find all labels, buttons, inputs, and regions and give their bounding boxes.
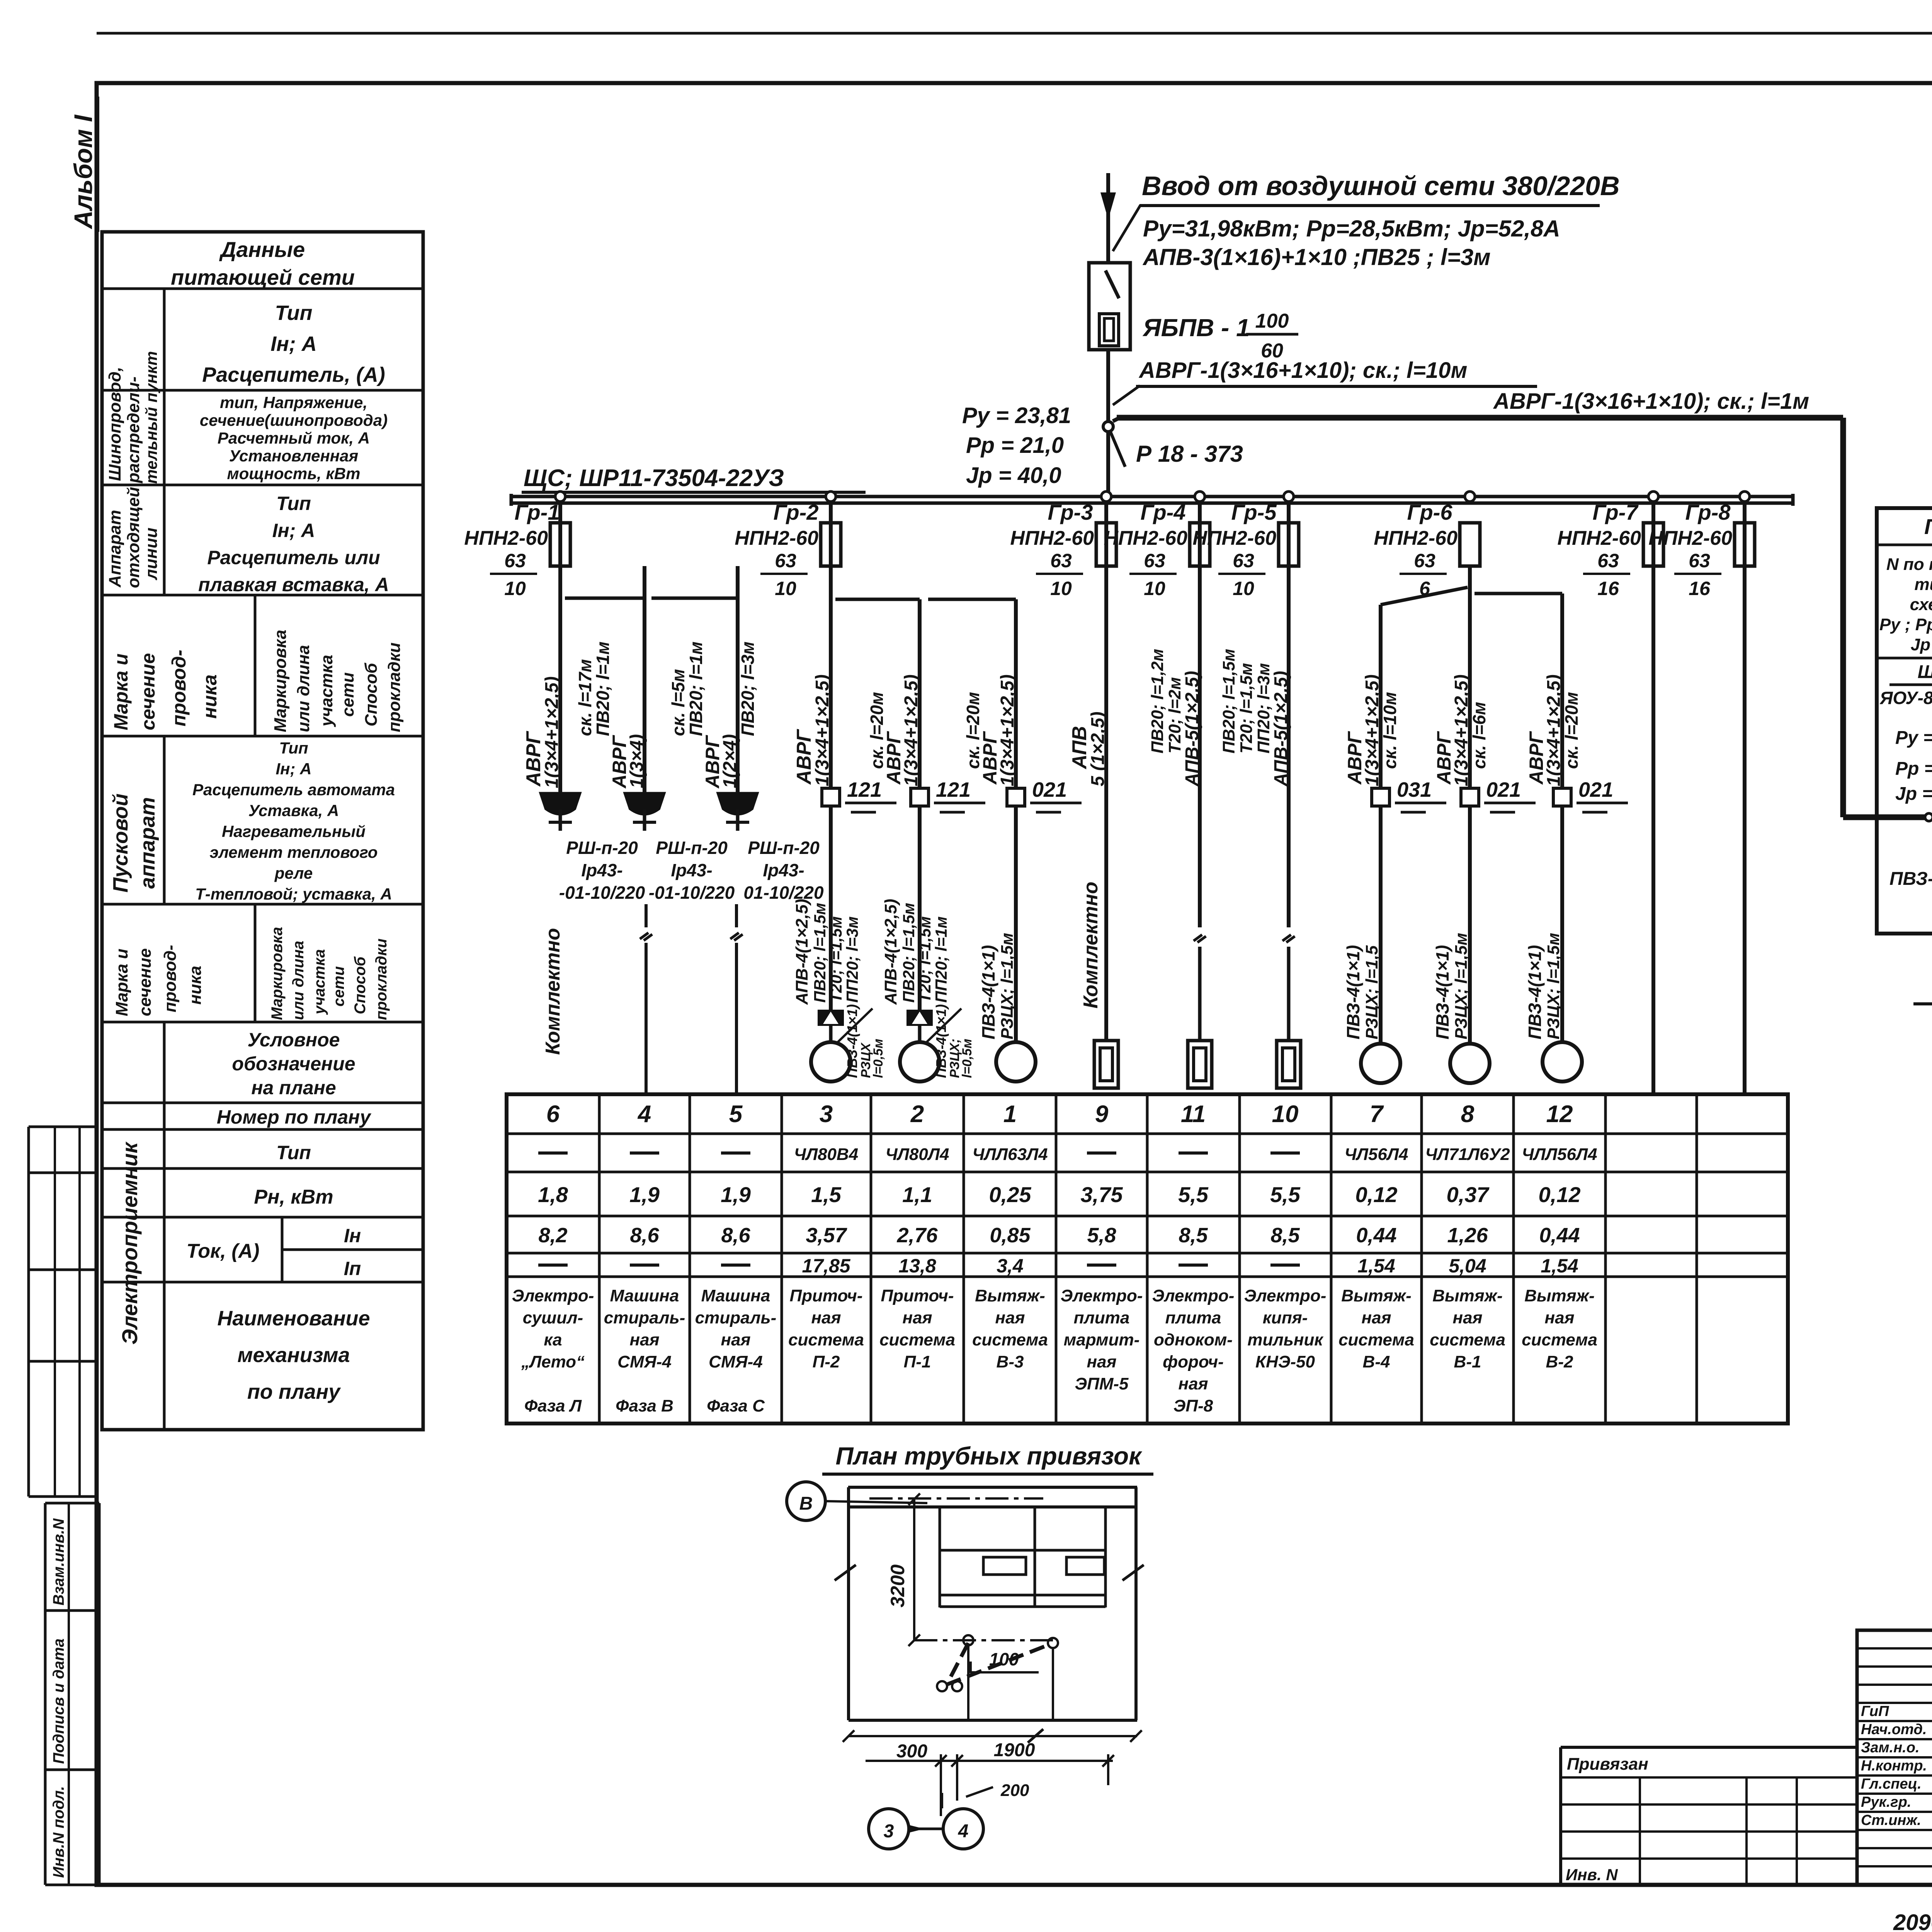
label ПВЗ-4 Гр-6 main — [1432, 933, 1471, 1039]
wire Гр-6 branch right — [1475, 594, 1562, 1042]
svg-text:Тип: Тип — [279, 739, 308, 757]
label cable Гр-2 branch 2 — [867, 674, 922, 786]
svg-text:провод-: провод- — [168, 650, 190, 726]
group panel column headers — [1879, 514, 1932, 654]
svg-text:3,4: 3,4 — [997, 1255, 1024, 1277]
svg-text:10: 10 — [1272, 1101, 1299, 1128]
starter Гр-2 main — [818, 1010, 844, 1042]
label cable Гр-2 branch 3 — [963, 674, 1018, 786]
svg-text:или длина: или длина — [294, 645, 313, 732]
svg-text:участка: участка — [311, 949, 328, 1015]
svg-text:ПВ20; l=1м: ПВ20; l=1м — [593, 641, 613, 736]
svg-text:СМЯ-4: СМЯ-4 — [709, 1352, 763, 1371]
wire Гр-2 branch 2 — [835, 599, 920, 1010]
svg-text:Р 18 - 373: Р 18 - 373 — [1136, 441, 1243, 467]
svg-text:ЧЛ80Л4: ЧЛ80Л4 — [885, 1145, 949, 1164]
svg-text:4: 4 — [637, 1101, 651, 1128]
svg-text:ЧЛЛ56Л4: ЧЛЛ56Л4 — [1522, 1145, 1597, 1164]
svg-text:Ру = 23,81: Ру = 23,81 — [962, 403, 1071, 428]
svg-text:Iр43-: Iр43- — [581, 860, 622, 880]
svg-text:Аппарат: Аппарат — [105, 510, 124, 588]
svg-text:Шинопровод,: Шинопровод, — [105, 367, 124, 481]
label cable Гр-3 — [1068, 712, 1108, 786]
svg-text:линии: линии — [142, 527, 161, 580]
svg-text:ск. l=20м: ск. l=20м — [1561, 692, 1582, 769]
svg-text:1,8: 1,8 — [538, 1182, 568, 1207]
svg-text:ЭПМ-5: ЭПМ-5 — [1075, 1374, 1129, 1393]
supply line from overhead network — [1100, 173, 1116, 263]
motor M2 — [900, 1042, 939, 1082]
plan2 wiring — [914, 1635, 1058, 1720]
plan2 left wall — [835, 1487, 856, 1720]
svg-text:121: 121 — [847, 778, 882, 801]
svg-text:АПВ-4(1×2,5): АПВ-4(1×2,5) — [881, 899, 900, 1005]
group label Гр-4 — [1141, 500, 1186, 524]
leader ПВЗ-4 branch2 — [925, 1004, 975, 1078]
svg-text:13,8: 13,8 — [898, 1255, 936, 1277]
socket outlet 10 — [1277, 1041, 1301, 1088]
label cable Гр-6 right — [1526, 674, 1582, 786]
svg-text:мощность, кВт: мощность, кВт — [227, 464, 361, 483]
svg-text:Ру ; Рр(кВт);: Ру ; Рр(кВт); — [1879, 615, 1932, 634]
svg-text:Iн; А: Iн; А — [270, 332, 317, 355]
meter box Гр-2 branch3 021 — [1007, 778, 1082, 812]
svg-text:НПН2-60: НПН2-60 — [1374, 527, 1458, 549]
fuse Гр-8 НПН2-60 63/16 — [1648, 492, 1755, 599]
wire Гр-3 — [1104, 503, 1108, 1041]
meter box Гр-6 left 031 — [1372, 778, 1446, 812]
left data table frame — [102, 232, 423, 1430]
svg-text:Нагревательный: Нагревательный — [222, 822, 366, 840]
svg-text:63: 63 — [1144, 550, 1165, 571]
svg-text:ПВЗ-4(1×1): ПВЗ-4(1×1) — [1525, 945, 1545, 1039]
svg-text:РШ-п-20: РШ-п-20 — [566, 838, 638, 858]
svg-text:10: 10 — [1144, 578, 1165, 599]
plan2 cupboard — [940, 1507, 1105, 1607]
svg-text:система: система — [972, 1330, 1048, 1349]
svg-text:ск. l=10м: ск. l=10м — [1380, 692, 1400, 769]
svg-text:КНЭ-50: КНЭ-50 — [1255, 1352, 1315, 1371]
svg-text:Приточ-: Приточ- — [790, 1286, 863, 1305]
row label Аппарат отходящей линии — [105, 487, 161, 588]
svg-text:20967-01: 20967-01 — [1893, 1910, 1932, 1932]
svg-text:ника: ника — [199, 674, 221, 719]
label cable Гр-2 main — [793, 674, 833, 786]
svg-text:Iп: Iп — [344, 1258, 361, 1279]
svg-text:9: 9 — [1095, 1101, 1109, 1128]
group label Гр-1 — [515, 500, 560, 524]
svg-text:Гр-1: Гр-1 — [515, 500, 560, 524]
svg-text:12: 12 — [1546, 1101, 1573, 1128]
svg-text:сечение: сечение — [136, 948, 155, 1016]
load table row numbers — [546, 1101, 1573, 1128]
svg-text:4: 4 — [958, 1821, 969, 1842]
svg-text:5,8: 5,8 — [1087, 1224, 1116, 1247]
svg-text:Т20; l=2м: Т20; l=2м — [1165, 677, 1184, 753]
wire Гр-5 — [1282, 503, 1295, 1039]
svg-text:П-1: П-1 — [904, 1352, 931, 1371]
plan2 axis circle В — [787, 1482, 927, 1520]
svg-text:РШ-п-20: РШ-п-20 — [748, 838, 820, 858]
svg-text:ГиП: ГиП — [1861, 1703, 1889, 1719]
svg-text:Номер по плану: Номер по плану — [217, 1106, 372, 1128]
svg-text:Вытяж-: Вытяж- — [1524, 1286, 1594, 1305]
svg-text:Наименование: Наименование — [217, 1307, 370, 1330]
plan2 axis circle 3 — [869, 1809, 909, 1849]
svg-text:АПВ-5(1×2,5): АПВ-5(1×2,5) — [1182, 671, 1202, 787]
svg-text:АПВ-3(1×16)+1×10 ;ПВ25 ; l=3м: АПВ-3(1×16)+1×10 ;ПВ25 ; l=3м — [1142, 244, 1491, 270]
group label Гр-5 — [1231, 500, 1277, 524]
row label Электроприемник — [117, 1141, 142, 1345]
svg-text:3,57: 3,57 — [806, 1224, 847, 1247]
svg-text:РЗЦХ; l=1,5м: РЗЦХ; l=1,5м — [1452, 933, 1471, 1039]
fuse Гр-5 НПН2-60 63/10 — [1192, 492, 1299, 599]
svg-text:„Лето“: „Лето“ — [521, 1352, 585, 1371]
svg-text:ЩС; ШР11-73504-22УЗ: ЩС; ШР11-73504-22УЗ — [524, 465, 784, 492]
svg-text:1,5: 1,5 — [811, 1182, 842, 1207]
cell Ток А Iн Iп — [187, 1217, 423, 1282]
label АВРГ-1 l=1м — [1493, 389, 1809, 414]
svg-text:7: 7 — [1370, 1101, 1384, 1128]
label Комплектно Гр-3 — [1080, 882, 1102, 1009]
label ЩС ШР11-73504-22УЗ — [522, 465, 866, 492]
svg-text:Jр (А): Jр (А) — [1911, 635, 1932, 654]
svg-text:Т20; l=1,5м: Т20; l=1,5м — [827, 916, 845, 1003]
svg-text:ПВ20; l=1,5м: ПВ20; l=1,5м — [1219, 649, 1238, 753]
svg-text:Рн, кВт: Рн, кВт — [254, 1186, 333, 1208]
plan2 title План трубных привязок — [822, 1442, 1153, 1474]
row label Марка и сечение проводника 2 — [112, 945, 205, 1016]
svg-text:провод-: провод- — [161, 945, 180, 1012]
svg-text:Групповой щиток: Групповой щиток — [1924, 514, 1932, 539]
svg-text:РЗЦХ; l=1,5м: РЗЦХ; l=1,5м — [998, 933, 1017, 1039]
svg-text:Марка и: Марка и — [110, 653, 132, 730]
svg-text:П-2: П-2 — [813, 1352, 840, 1371]
cell Наименование механизма по плану — [217, 1307, 370, 1403]
svg-text:ная: ная — [630, 1330, 660, 1349]
svg-text:2: 2 — [910, 1101, 924, 1128]
svg-text:ЭП-8: ЭП-8 — [1173, 1396, 1213, 1415]
label АПВ-3 cable — [1142, 244, 1491, 270]
svg-text:Электро-: Электро- — [1152, 1286, 1235, 1305]
svg-text:Зам.н.о.: Зам.н.о. — [1861, 1740, 1920, 1756]
svg-text:ПВЗ-60: ПВЗ-60 — [1889, 869, 1932, 889]
svg-text:5,04: 5,04 — [1449, 1255, 1486, 1277]
svg-text:N по плану,: N по плану, — [1886, 555, 1932, 574]
svg-text:Гр-6: Гр-6 — [1407, 500, 1453, 524]
cell Тип Iн А Расцепитель — [202, 301, 385, 386]
svg-text:63: 63 — [1050, 550, 1072, 571]
svg-text:система: система — [1338, 1330, 1414, 1349]
svg-text:В-4: В-4 — [1363, 1352, 1390, 1371]
svg-text:021: 021 — [1578, 778, 1613, 801]
svg-text:ПП20; l=1м: ПП20; l=1м — [932, 917, 950, 1003]
svg-text:ная: ная — [1087, 1352, 1117, 1371]
svg-text:Рук.гр.: Рук.гр. — [1861, 1794, 1911, 1810]
svg-text:Тип: Тип — [275, 301, 313, 325]
svg-text:на плане: на плане — [251, 1077, 336, 1099]
svg-text:ПВЗ-4(1×1): ПВЗ-4(1×1) — [844, 1004, 860, 1078]
svg-text:ЧЛЛ63Л4: ЧЛЛ63Л4 — [972, 1145, 1048, 1164]
svg-text:6: 6 — [546, 1101, 560, 1128]
label АПВ-4 lower branch2 — [881, 899, 950, 1005]
svg-text:Т20; l=1,5м: Т20; l=1,5м — [1237, 663, 1256, 753]
label ПВЗ-4 lower branch3 — [978, 933, 1017, 1039]
svg-text:Гр-7: Гр-7 — [1593, 500, 1639, 524]
wire Гр-6 branch left — [1381, 587, 1468, 1044]
svg-text:Ст.инж.: Ст.инж. — [1861, 1812, 1921, 1828]
svg-text:Iн; А: Iн; А — [276, 760, 311, 778]
wire to load 5 — [730, 904, 743, 1094]
main horizontal feeder wire — [1113, 418, 1843, 421]
svg-text:1,54: 1,54 — [1541, 1255, 1578, 1277]
svg-text:тельный пункт: тельный пункт — [142, 351, 160, 484]
socket outlet 9 — [1094, 1041, 1118, 1088]
load table row names — [512, 1286, 1597, 1415]
svg-text:Iн; А: Iн; А — [272, 520, 315, 541]
svg-text:Фаза С: Фаза С — [707, 1396, 765, 1415]
svg-text:РЗЦХ; l=1,5: РЗЦХ; l=1,5 — [1362, 945, 1381, 1039]
svg-text:ПВЗ-4(1×1): ПВЗ-4(1×1) — [1432, 945, 1452, 1039]
svg-text:Способ: Способ — [362, 662, 381, 726]
svg-text:плавкая вставка, А: плавкая вставка, А — [198, 574, 389, 595]
svg-text:1,9: 1,9 — [629, 1182, 660, 1207]
svg-text:Данные: Данные — [219, 237, 305, 262]
plan title магистральная электросеть — [1913, 970, 1932, 1041]
svg-text:63: 63 — [1597, 550, 1619, 571]
title staff names — [1861, 1702, 1932, 1828]
svg-text:Вытяж-: Вытяж- — [1341, 1286, 1411, 1305]
svg-text:ка: ка — [544, 1330, 562, 1349]
plan2 bottom dim line — [843, 1729, 1142, 1743]
svg-text:ника: ника — [186, 966, 205, 1005]
svg-text:Фаза Л: Фаза Л — [524, 1396, 582, 1415]
svg-text:стираль-: стираль- — [604, 1308, 685, 1327]
wire Гр-4 — [1194, 503, 1206, 1039]
svg-text:Iр43-: Iр43- — [763, 860, 804, 880]
plan2 dim 3200 — [887, 1493, 920, 1646]
svg-text:План трубных привязок: План трубных привязок — [835, 1442, 1143, 1470]
label cable Гр-1 branch 3 — [668, 641, 758, 789]
svg-text:0,37: 0,37 — [1447, 1182, 1490, 1207]
svg-text:8,2: 8,2 — [538, 1224, 567, 1247]
svg-text:отxодящей: отxодящей — [124, 487, 143, 588]
label cable Гр-4 — [1148, 649, 1202, 787]
wire to load 4 — [640, 904, 652, 1094]
load table row power — [538, 1182, 1580, 1207]
meter box Гр-2 main 121 — [822, 778, 896, 812]
meter box Гр-2 branch2 121 — [911, 778, 985, 812]
svg-text:ная: ная — [1362, 1308, 1391, 1327]
label ПВЗ-4 Гр-6 left — [1343, 945, 1381, 1039]
svg-text:НПН2-60: НПН2-60 — [1104, 527, 1187, 549]
svg-text:3: 3 — [884, 1821, 894, 1842]
svg-text:ЧЛ80В4: ЧЛ80В4 — [794, 1145, 859, 1164]
svg-text:ПВ20; l=1,5м: ПВ20; l=1,5м — [900, 903, 918, 1003]
socket outlet 11 — [1188, 1041, 1212, 1088]
feeder wire to group panel — [1843, 418, 1929, 817]
svg-text:ск. l=5м: ск. l=5м — [668, 669, 688, 736]
svg-text:17,85: 17,85 — [802, 1255, 850, 1277]
svg-text:Тип: Тип — [276, 1142, 311, 1163]
fuse Гр-2 НПН2-60 63/10 — [735, 492, 841, 599]
svg-text:система: система — [1430, 1330, 1505, 1349]
svg-text:НПН2-60: НПН2-60 — [1192, 527, 1276, 549]
svg-text:Н.контр.: Н.контр. — [1861, 1758, 1927, 1774]
svg-text:01-10/220: 01-10/220 — [743, 883, 824, 903]
svg-text:5,5: 5,5 — [1270, 1182, 1301, 1207]
wire Гр-8 — [1743, 503, 1747, 1094]
svg-text:АВРГ-1(3×16+1×10); ск.; l=10м: АВРГ-1(3×16+1×10); ск.; l=10м — [1138, 358, 1467, 383]
fuse Гр-1 НПН2-60 63/10 — [464, 492, 570, 599]
svg-text:ная: ная — [903, 1308, 932, 1327]
wire Гр-2 main — [829, 503, 833, 1010]
svg-text:Уставка, А: Уставка, А — [248, 801, 339, 820]
svg-text:В-2: В-2 — [1546, 1352, 1573, 1371]
svg-text:63: 63 — [1414, 550, 1435, 571]
svg-text:обозначение: обозначение — [232, 1053, 355, 1075]
starter Гр-2 branch2 — [906, 1010, 933, 1042]
motor M3 — [811, 1042, 850, 1082]
row label Маркировка или длина участка 2 — [269, 927, 390, 1020]
meter box Гр-6 main 021 — [1461, 778, 1536, 812]
svg-text:Машина: Машина — [610, 1286, 679, 1305]
label Комплектно Гр-1 — [542, 928, 564, 1055]
bus ЩС ШР11-73504-22УЗ — [511, 494, 1793, 506]
wire Гр-1 branch 3 — [651, 598, 738, 792]
header Групповой щиток — [1924, 514, 1932, 539]
svg-text:Расцепитель автомата: Расцепитель автомата — [192, 781, 395, 799]
svg-text:ск. l=17м: ск. l=17м — [575, 659, 595, 736]
svg-text:Расчетный ток, А: Расчетный ток, А — [218, 429, 370, 447]
strip label Инв N подл — [50, 1786, 67, 1878]
svg-text:схема: схема — [1910, 595, 1932, 614]
label РШ-п-20 no1 — [559, 838, 645, 903]
svg-text:8,6: 8,6 — [630, 1224, 659, 1247]
svg-text:мармит-: мармит- — [1064, 1330, 1140, 1349]
svg-text:Маркировка: Маркировка — [269, 927, 286, 1020]
plan2 dim 100 — [971, 1649, 1039, 1673]
label АВРГ-1 l=10м — [1113, 358, 1537, 405]
svg-text:ПВ20; l=3м: ПВ20; l=3м — [738, 641, 758, 736]
svg-text:1: 1 — [1003, 1101, 1017, 1128]
label ЯБПВ-1 100/60 — [1142, 310, 1298, 362]
switch Р18-373 — [1111, 432, 1243, 467]
svg-text:0,25: 0,25 — [989, 1182, 1032, 1207]
motor M12 — [1543, 1042, 1582, 1082]
svg-text:ЧЛ71Л6У2: ЧЛ71Л6У2 — [1425, 1145, 1510, 1164]
title attach box Привязан — [1561, 1747, 1857, 1885]
svg-text:8,5: 8,5 — [1270, 1224, 1300, 1247]
label Ввод от воздушной сети — [1113, 171, 1620, 251]
label РШ-п-20 no3 — [743, 838, 824, 903]
plan2 right wall — [1122, 1487, 1144, 1720]
svg-text:АПВ-4(1×2,5): АПВ-4(1×2,5) — [793, 899, 811, 1005]
cell Рн кВт — [254, 1186, 333, 1208]
svg-text:аппарат: аппарат — [136, 797, 159, 889]
svg-text:РШ-п-20: РШ-п-20 — [656, 838, 728, 858]
svg-text:ПВ20; l=1м: ПВ20; l=1м — [686, 641, 706, 736]
svg-text:l=0,5м: l=0,5м — [960, 1039, 975, 1078]
svg-text:5: 5 — [729, 1101, 743, 1128]
plan2 bottom walls — [849, 1719, 1137, 1722]
svg-text:система: система — [1522, 1330, 1597, 1349]
svg-text:Пусковой: Пусковой — [109, 793, 132, 893]
svg-text:8: 8 — [1461, 1101, 1475, 1128]
row label Шинопровод распределительный пункт — [105, 351, 160, 484]
label Ру 23,81 — [962, 403, 1071, 488]
label АПВ-4 lower main — [793, 899, 861, 1005]
svg-text:тип, Напряжение,: тип, Напряжение, — [220, 393, 367, 412]
wire Гр-6 main — [1468, 566, 1472, 1044]
group label Гр-7 — [1593, 500, 1639, 524]
svg-text:ЧЛ56Л4: ЧЛ56Л4 — [1344, 1145, 1408, 1164]
svg-text:Ввод от воздушной сети 380/220: Ввод от воздушной сети 380/220В — [1142, 171, 1620, 201]
svg-text:прокладки: прокладки — [373, 939, 390, 1020]
svg-text:-01-10/220: -01-10/220 — [649, 883, 735, 903]
svg-text:по плану: по плану — [247, 1380, 341, 1403]
svg-text:АВРГ-1(3×16+1×10); ск.; l=1м: АВРГ-1(3×16+1×10); ск.; l=1м — [1493, 389, 1809, 414]
svg-text:тип,: тип, — [1914, 575, 1932, 594]
svg-text:Нач.отд.: Нач.отд. — [1861, 1721, 1927, 1738]
svg-text:плита: плита — [1165, 1308, 1221, 1327]
svg-text:Iр43-: Iр43- — [671, 860, 712, 880]
cell тип напряжение сечение — [200, 393, 388, 483]
svg-text:1(3×4+1×2,5): 1(3×4+1×2,5) — [901, 674, 922, 786]
svg-text:НПН2-60: НПН2-60 — [1010, 527, 1094, 549]
svg-text:8,5: 8,5 — [1179, 1224, 1208, 1247]
svg-text:система: система — [879, 1330, 955, 1349]
svg-text:элемент теплового: элемент теплового — [210, 843, 378, 861]
svg-text:Ток, (А): Ток, (А) — [187, 1240, 260, 1262]
svg-text:тильник: тильник — [1247, 1330, 1324, 1349]
svg-text:сети: сети — [330, 966, 347, 1007]
svg-text:Машина: Машина — [701, 1286, 770, 1305]
plan2 axis circle 4 — [909, 1793, 983, 1849]
svg-text:прокладки: прокладки — [385, 643, 404, 732]
svg-text:100: 100 — [1255, 310, 1289, 332]
label cable Гр-6 main — [1433, 674, 1489, 786]
svg-text:Альбом I: Альбом I — [69, 114, 97, 230]
fuse Гр-3 НПН2-60 63/10 — [1010, 492, 1116, 599]
group label Гр-6 — [1407, 500, 1453, 524]
svg-text:питающей сети: питающей сети — [171, 265, 355, 289]
label cable Гр-1 branch 2 — [575, 641, 647, 789]
load table row In — [538, 1224, 1580, 1247]
socket РШ-п-20 no1 — [539, 566, 582, 831]
svg-text:Рр = 7,5: Рр = 7,5 — [1895, 759, 1932, 779]
svg-text:сечение: сечение — [137, 653, 159, 730]
svg-text:Фаза В: Фаза В — [616, 1396, 673, 1415]
svg-text:Т20; l=1,5м: Т20; l=1,5м — [916, 916, 934, 1003]
svg-text:3: 3 — [820, 1101, 833, 1128]
cell Тип — [276, 1142, 311, 1163]
svg-text:Взам.инв.N: Взам.инв.N — [50, 1518, 67, 1605]
svg-text:ЩО: ЩО — [1918, 662, 1932, 682]
load table row Ip — [538, 1255, 1578, 1277]
svg-text:Комплектно: Комплектно — [542, 928, 564, 1055]
svg-text:Электроприемник: Электроприемник — [117, 1141, 142, 1345]
svg-text:одноком-: одноком- — [1154, 1330, 1233, 1349]
svg-text:ная: ная — [1453, 1308, 1483, 1327]
svg-text:021: 021 — [1486, 778, 1521, 801]
svg-text:Марка и: Марка и — [112, 949, 131, 1016]
svg-text:16: 16 — [1689, 578, 1711, 599]
svg-text:ЯБПВ - 1: ЯБПВ - 1 — [1142, 314, 1250, 342]
svg-text:реле: реле — [274, 864, 313, 882]
fuse Гр-7 НПН2-60 63/16 — [1557, 492, 1663, 599]
svg-text:В-3: В-3 — [997, 1352, 1024, 1371]
